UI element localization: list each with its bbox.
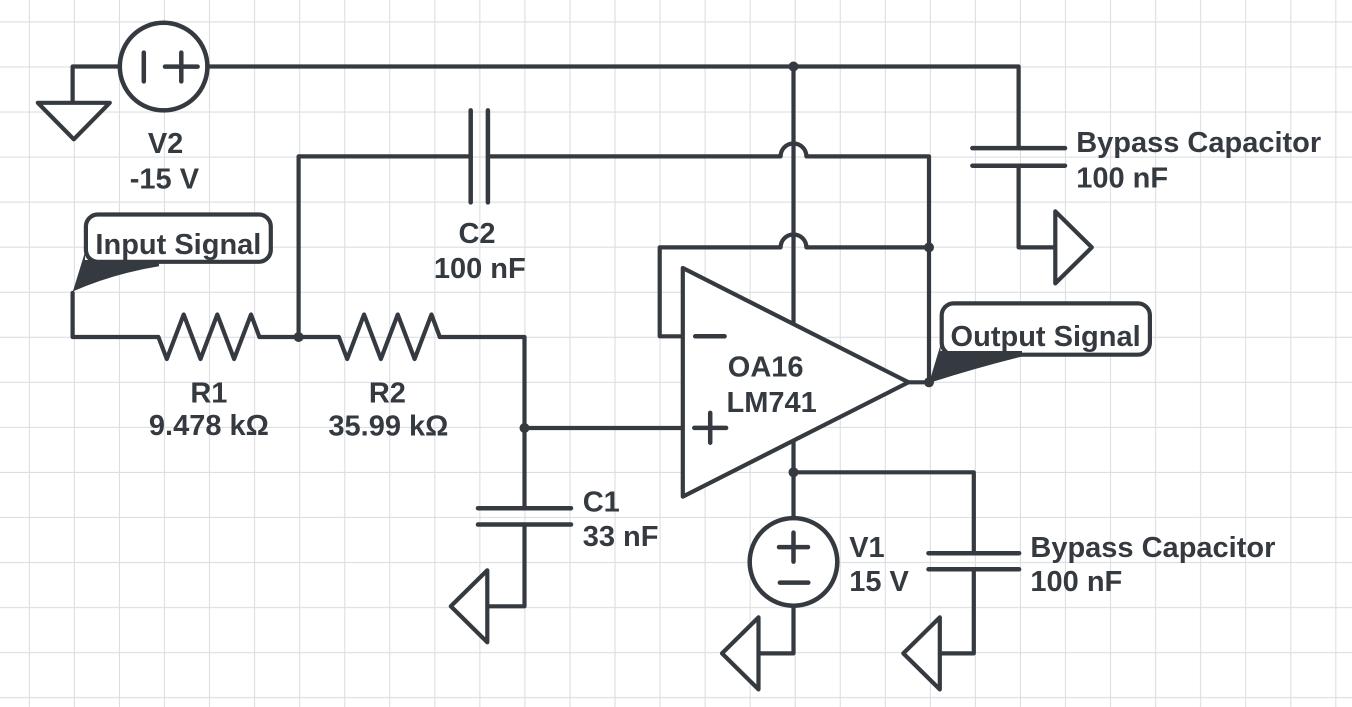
svg-text:LM741: LM741: [727, 387, 817, 419]
label bypass capacitor bottom: [1030, 532, 1275, 598]
resistor R2: [339, 315, 440, 360]
svg-text:R2: R2: [369, 377, 406, 409]
wire C1 top: [522, 428, 526, 508]
ground (C1, pointing left): [451, 570, 488, 642]
flag Output Signal: [929, 303, 1150, 383]
flag Input Signal: [73, 215, 271, 292]
svg-text:100 nF: 100 nF: [434, 253, 526, 285]
wire top rail V2 to top-right corner: [207, 67, 1018, 149]
wire feedback from op-amp minus input with hop: [660, 234, 929, 336]
wire positive supply column (top): [791, 67, 795, 324]
svg-text:Input Signal: Input Signal: [95, 229, 261, 261]
label V2: [130, 128, 200, 195]
wire bypass C4 to ground: [1019, 166, 1054, 248]
node supply / bypass branch junction: [789, 467, 799, 477]
svg-text:9.478 kΩ: 9.478 kΩ: [149, 410, 269, 442]
ground (V2): [38, 103, 110, 140]
wire C2 right with hop over supply column: [488, 143, 929, 247]
svg-text:15 V: 15 V: [849, 566, 909, 598]
svg-text:V1: V1: [849, 532, 884, 564]
svg-text:C1: C1: [583, 486, 620, 518]
capacitor C2: [471, 110, 488, 202]
label C2: [434, 218, 526, 285]
wire bypass C3 branch: [794, 472, 974, 553]
svg-text:Bypass Capacitor: Bypass Capacitor: [1030, 532, 1275, 564]
svg-text:33 nF: 33 nF: [583, 521, 659, 553]
svg-text:100 nF: 100 nF: [1076, 163, 1168, 195]
wire input signal to R1: [73, 293, 159, 337]
ground (V1, pointing left): [722, 617, 759, 689]
node C1 junction: [520, 423, 530, 433]
svg-text:OA16: OA16: [728, 352, 804, 384]
capacitor bypass C4 (top right): [972, 148, 1065, 166]
svg-text:V2: V2: [148, 128, 183, 160]
wire V1 to ground: [761, 607, 794, 654]
op-amp U1 triangle: [683, 268, 909, 497]
svg-text:Output Signal: Output Signal: [951, 321, 1141, 353]
svg-text:Bypass Capacitor: Bypass Capacitor: [1076, 127, 1321, 159]
node output: [924, 377, 934, 387]
node top rail / supply column junction: [789, 62, 799, 72]
voltage source V1: [750, 518, 838, 606]
label bypass capacitor top: [1076, 127, 1321, 195]
wire R1 to R2: [259, 335, 338, 339]
label R2: [328, 377, 448, 442]
ground (bottom right, pointing left): [903, 617, 940, 689]
resistor R1: [158, 315, 259, 360]
svg-text:100 nF: 100 nF: [1030, 566, 1122, 598]
op-amp minus symbol: [695, 334, 724, 339]
wire C1 to ground: [489, 525, 524, 607]
node feedback / output column junction: [924, 242, 934, 252]
capacitor C1: [478, 508, 571, 524]
voltage source V2: [120, 23, 208, 111]
label C1: [583, 486, 659, 553]
label V1: [849, 532, 909, 598]
svg-text:R1: R1: [190, 377, 227, 409]
svg-text:-15 V: -15 V: [130, 163, 200, 195]
node R1/R2/C2 junction: [294, 332, 304, 342]
wire R2 to op-amp plus input: [440, 337, 683, 428]
svg-text:35.99 kΩ: 35.99 kΩ: [328, 410, 448, 442]
label R1: [149, 377, 269, 441]
wire V2 left terminal to ground: [73, 67, 118, 103]
wire negative supply column (bottom): [791, 440, 795, 517]
label op-amp U1: [727, 352, 817, 420]
wire C2 left branch: [299, 156, 471, 337]
capacitor bypass C3 (bottom right): [929, 553, 1020, 569]
op-amp plus symbol: [694, 413, 726, 443]
wire output column: [909, 247, 930, 382]
wire bypass C3 to ground: [942, 569, 974, 653]
ground (top right, pointing right): [1055, 211, 1092, 283]
svg-text:C2: C2: [458, 218, 495, 250]
